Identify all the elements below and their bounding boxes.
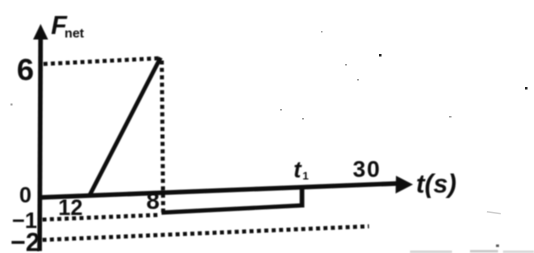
svg-text:net: net xyxy=(65,26,85,41)
svg-text:6: 6 xyxy=(17,52,34,87)
svg-text:t: t xyxy=(294,157,303,183)
svg-text:1: 1 xyxy=(303,171,309,183)
svg-text:30: 30 xyxy=(353,156,381,182)
svg-text:0: 0 xyxy=(19,182,31,207)
svg-text:12: 12 xyxy=(58,195,82,220)
svg-text:−2: −2 xyxy=(11,227,41,253)
svg-text:t(s): t(s) xyxy=(416,169,456,199)
svg-text:8: 8 xyxy=(146,188,159,215)
